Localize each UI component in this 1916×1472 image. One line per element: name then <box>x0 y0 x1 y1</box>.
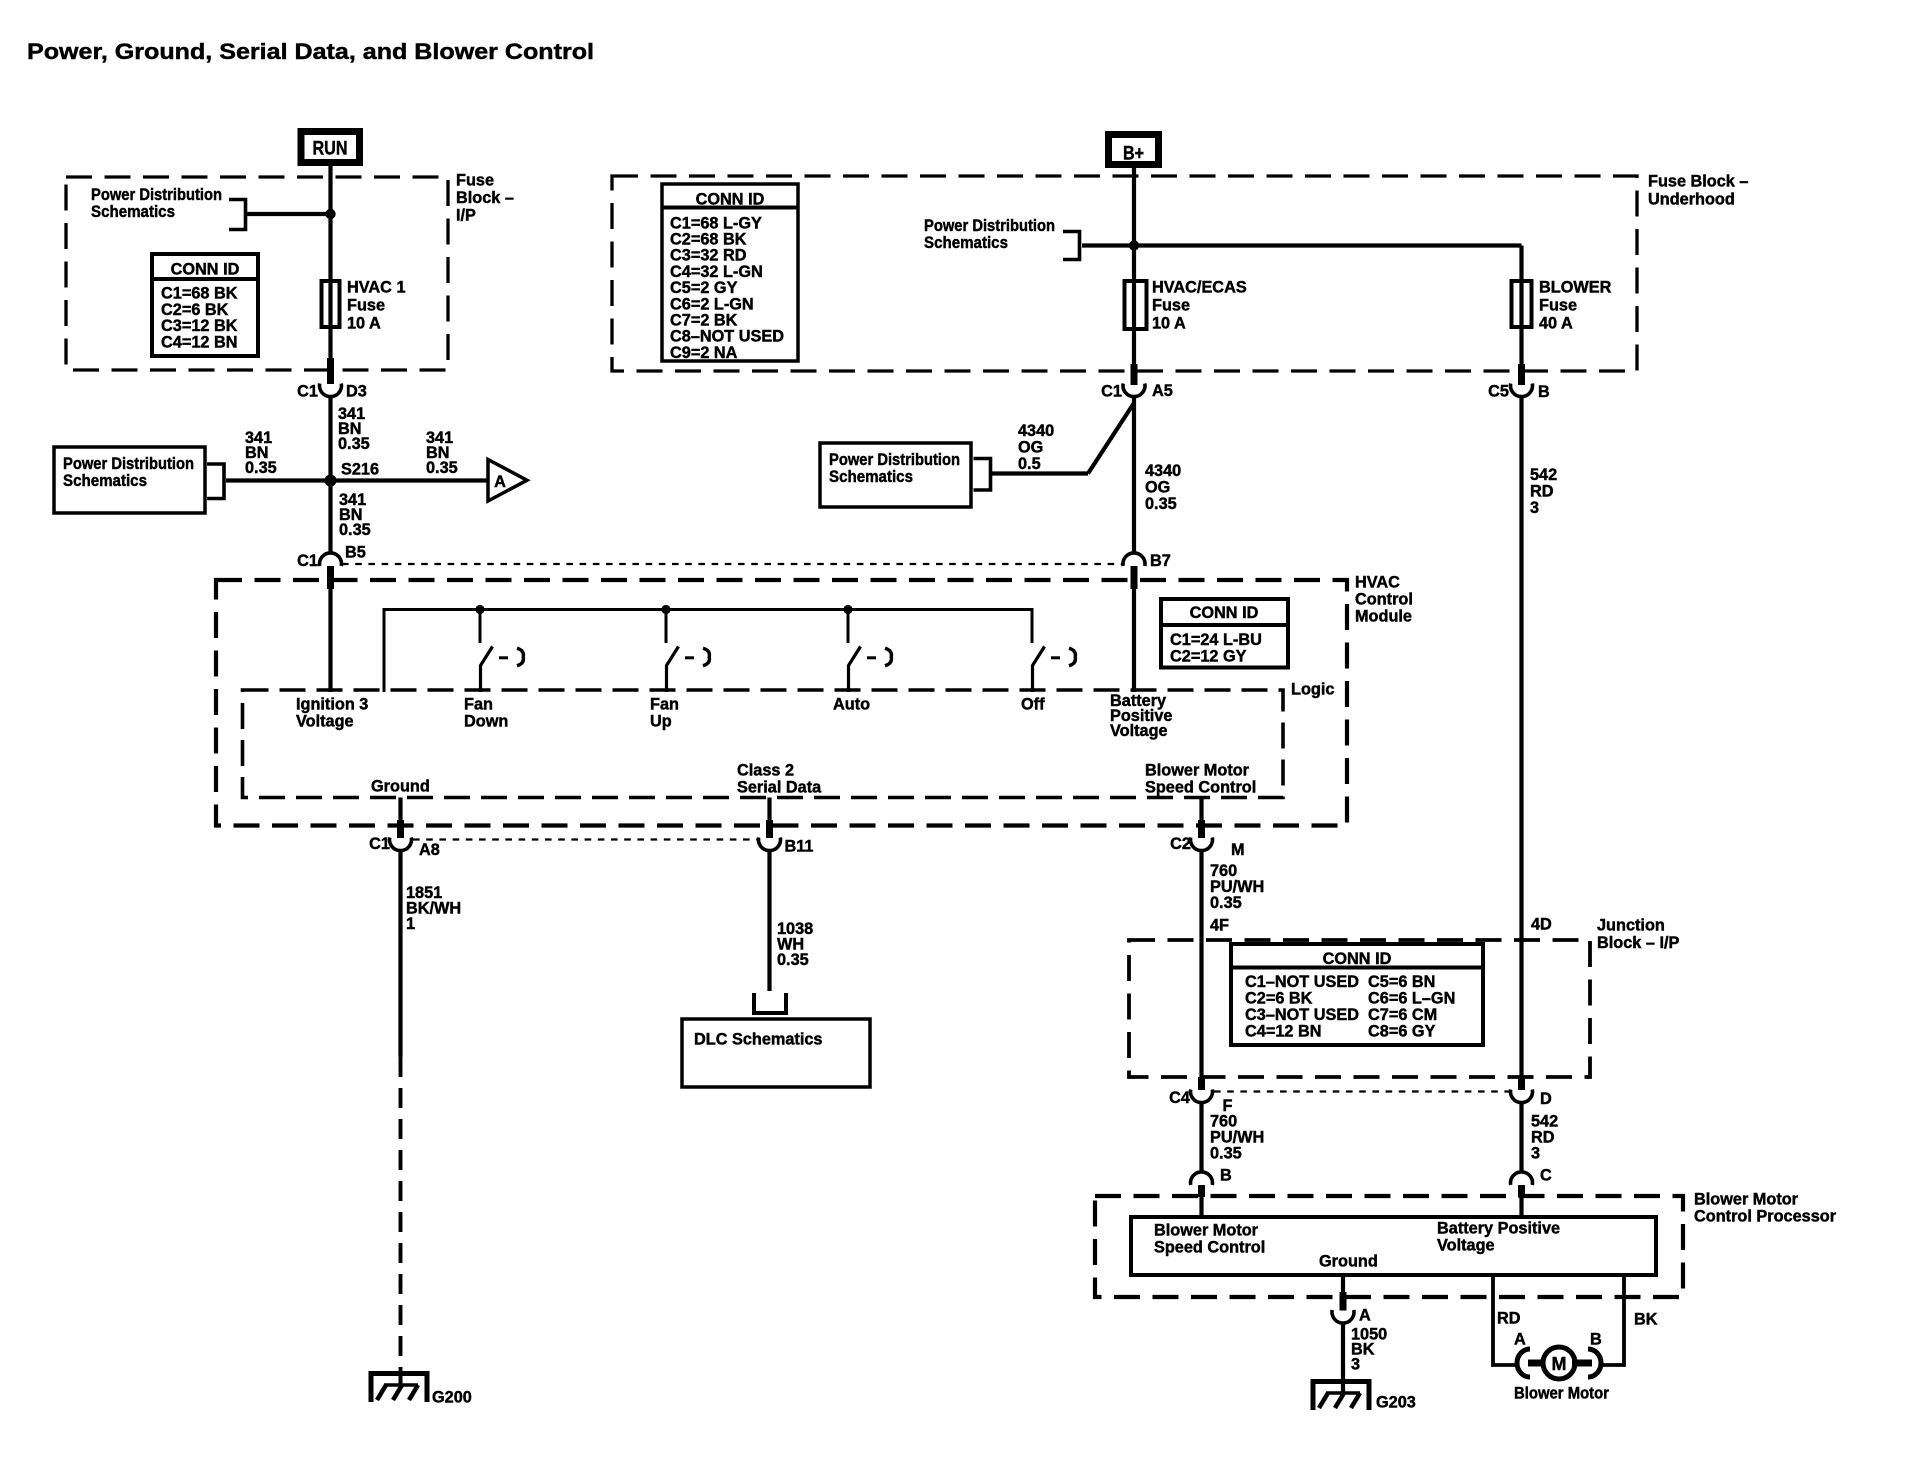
connector B11 stub <box>766 820 773 838</box>
fuse HVAC/ECAS 10A <box>1125 281 1147 329</box>
switch linkage dash x=848 <box>867 656 876 659</box>
svg-text:Up: Up <box>650 713 672 731</box>
svg-text:Fuse: Fuse <box>456 172 494 190</box>
svg-text:OG: OG <box>1018 439 1043 457</box>
svg-text:S216: S216 <box>341 461 379 479</box>
connector alignment dotted line A8-B11 <box>413 838 757 840</box>
svg-text:RD: RD <box>1530 483 1554 501</box>
svg-text:0.35: 0.35 <box>777 951 809 969</box>
connector C1/B5 <box>320 553 342 566</box>
svg-text:C1–NOT USED: C1–NOT USED <box>1245 973 1359 991</box>
svg-text:Schematics: Schematics <box>91 203 175 221</box>
connector C1/A5 <box>1123 384 1145 397</box>
connector C1/D3 <box>320 384 342 397</box>
svg-text:0.35: 0.35 <box>1145 495 1177 513</box>
svg-text:Power Distribution: Power Distribution <box>829 451 960 469</box>
svg-text:Voltage: Voltage <box>1437 1237 1495 1255</box>
connector C stub <box>1518 1185 1525 1197</box>
svg-text:Class 2: Class 2 <box>737 762 794 780</box>
splice S216 <box>325 475 337 487</box>
fuse BLOWER 40A <box>1512 281 1532 327</box>
wire BK to blower motor <box>1602 1275 1624 1365</box>
svg-text:A8: A8 <box>419 841 440 859</box>
svg-text:4D: 4D <box>1531 916 1552 934</box>
connector D <box>1510 1090 1532 1103</box>
svg-text:C2=6 BK: C2=6 BK <box>161 301 229 319</box>
svg-text:3: 3 <box>1530 499 1539 517</box>
svg-text:C6=6 L–GN: C6=6 L–GN <box>1368 990 1455 1008</box>
wire RD to blower motor <box>1493 1275 1517 1365</box>
wire 1038 WH 0.35 <box>767 850 771 991</box>
connector alignment dotted line F-D <box>1214 1090 1509 1092</box>
svg-text:A: A <box>494 473 506 491</box>
HVAC control module dashed box <box>216 580 1347 826</box>
svg-text:C5: C5 <box>1488 383 1509 401</box>
svg-text:G203: G203 <box>1376 1394 1416 1412</box>
svg-text:HVAC 1: HVAC 1 <box>347 279 406 297</box>
svg-text:0.35: 0.35 <box>1210 1145 1242 1163</box>
bus junction auto <box>843 605 852 614</box>
conn id table HVAC control module <box>1161 599 1288 668</box>
conn id table fuse block underhood <box>662 184 798 361</box>
blower motor control processor dashed box <box>1095 1196 1683 1297</box>
switch Off detent hook <box>1069 648 1075 665</box>
svg-text:Power Distribution: Power Distribution <box>91 186 222 204</box>
svg-text:3: 3 <box>1531 1145 1540 1163</box>
power distribution schematics box (middle) <box>820 443 971 507</box>
wire C into processor <box>1519 1197 1523 1217</box>
blower motor M <box>1543 1347 1575 1379</box>
svg-text:Speed Control: Speed Control <box>1145 779 1256 797</box>
wire blower speed control to C2/M <box>1199 798 1203 823</box>
switch bus wire <box>384 610 1032 693</box>
svg-text:C1: C1 <box>369 835 390 853</box>
svg-text:C1: C1 <box>297 383 318 401</box>
wire B5 to logic ignition 3 voltage <box>328 589 332 692</box>
wire blower fuse feed <box>1519 246 1523 376</box>
wire bracket to RUN feed <box>246 212 331 216</box>
svg-text:4340: 4340 <box>1018 422 1054 440</box>
svg-text:RUN: RUN <box>313 139 348 160</box>
connector C5/B <box>1510 384 1532 397</box>
connector A stub <box>1340 1292 1347 1311</box>
svg-text:Ground: Ground <box>1319 1253 1378 1271</box>
svg-text:4F: 4F <box>1210 917 1229 935</box>
svg-text:C1=24 L-BU: C1=24 L-BU <box>1170 631 1262 649</box>
svg-text:Control Processor: Control Processor <box>1694 1208 1837 1226</box>
svg-text:Blower Motor: Blower Motor <box>1694 1191 1799 1209</box>
svg-text:C4: C4 <box>1169 1089 1190 1107</box>
switch contact stub x=666 <box>665 610 668 644</box>
svg-text:HVAC: HVAC <box>1355 574 1400 592</box>
svg-text:0.35: 0.35 <box>245 459 277 477</box>
junction on RUN feed <box>325 209 335 219</box>
wire power distribution to B+ feed <box>1082 243 1522 247</box>
wire power distribution to S216 <box>226 478 331 482</box>
svg-text:Blower Motor: Blower Motor <box>1145 762 1250 780</box>
svg-text:Power, Ground, Serial Data, an: Power, Ground, Serial Data, and Blower C… <box>27 39 594 64</box>
svg-text:C4=12 BN: C4=12 BN <box>1245 1023 1321 1041</box>
svg-text:CONN ID: CONN ID <box>171 261 240 279</box>
svg-text:C4=12 BN: C4=12 BN <box>161 333 237 351</box>
svg-text:OG: OG <box>1145 479 1170 497</box>
wire B7 to logic battery positive voltage <box>1132 589 1136 692</box>
svg-text:Schematics: Schematics <box>829 468 913 486</box>
connector alignment dotted line B5-B7 <box>342 563 1122 565</box>
fuse HVAC 1 10A <box>322 281 340 327</box>
svg-text:Serial Data: Serial Data <box>737 779 822 797</box>
connector C5/B stub <box>1518 364 1525 385</box>
connector B7 stub <box>1131 566 1138 589</box>
switch blade x=480 <box>481 647 493 693</box>
svg-text:Fan: Fan <box>650 696 679 714</box>
svg-text:D3: D3 <box>346 383 367 401</box>
svg-text:B11: B11 <box>785 838 814 856</box>
connector D stub <box>1518 1077 1525 1090</box>
battery feed B+ box <box>1109 135 1159 165</box>
svg-text:C: C <box>1540 1167 1552 1185</box>
svg-text:Down: Down <box>464 713 508 731</box>
connector C1/A8 stub <box>397 820 404 838</box>
connector C1/A5 stub <box>1131 364 1138 385</box>
svg-text:M: M <box>1552 1354 1567 1374</box>
svg-text:40 A: 40 A <box>1539 315 1573 333</box>
svg-text:542: 542 <box>1530 466 1557 484</box>
svg-text:B5: B5 <box>345 544 366 562</box>
wire 542 RD to blower processor <box>1519 1102 1523 1171</box>
svg-text:Fuse: Fuse <box>1539 297 1577 315</box>
svg-text:C1: C1 <box>1101 383 1122 401</box>
switch contact stub x=480 <box>479 610 482 644</box>
svg-text:B: B <box>1590 1331 1602 1349</box>
connector B stub <box>1198 1185 1205 1197</box>
wire B+ to HVAC/ECAS fuse <box>1132 168 1136 385</box>
wire S216 to A <box>331 478 489 482</box>
switch Off linkage dash <box>1051 656 1060 659</box>
svg-text:0.35: 0.35 <box>1210 894 1242 912</box>
fuse block underhood dashed box <box>612 176 1637 371</box>
off-page arrow A <box>488 460 527 502</box>
switch detent hook x=848 <box>885 648 891 665</box>
svg-text:Fuse Block –: Fuse Block – <box>1648 173 1748 191</box>
connector C (processor) <box>1510 1172 1532 1185</box>
connector A <box>1332 1310 1354 1323</box>
svg-text:C1: C1 <box>297 552 318 570</box>
svg-text:4340: 4340 <box>1145 462 1181 480</box>
svg-text:Fan: Fan <box>464 696 493 714</box>
svg-text:0.35: 0.35 <box>339 521 371 539</box>
junction block I/P dashed box <box>1129 940 1590 1077</box>
wire 1851 BK/WH 1 dashed part <box>399 1057 403 1372</box>
svg-text:B7: B7 <box>1150 552 1171 570</box>
switch blade x=848 <box>849 647 861 693</box>
svg-text:Off: Off <box>1021 696 1045 714</box>
wire class 2 serial data to B11 <box>767 798 771 823</box>
connector B11 <box>759 838 781 851</box>
switch blade x=666 <box>667 647 679 693</box>
svg-text:C2: C2 <box>1170 835 1191 853</box>
logic block dashed box <box>243 690 1284 798</box>
bracket to power distribution (top left) <box>229 200 246 230</box>
switch contact stub x=848 <box>847 610 850 644</box>
wire processor ground to A <box>1341 1275 1345 1295</box>
svg-text:BLOWER: BLOWER <box>1539 279 1612 297</box>
connector C1/D3 stub <box>327 358 334 384</box>
svg-text:Voltage: Voltage <box>296 713 354 731</box>
conn id table fuse block I/P <box>152 254 258 356</box>
fuse block I/P dashed box <box>66 177 448 370</box>
connector C2/M stub <box>1198 820 1205 838</box>
wire 4340 OG A5 to B7 <box>1132 396 1136 553</box>
svg-text:DLC Schematics: DLC Schematics <box>694 1031 823 1049</box>
svg-text:HVAC/ECAS: HVAC/ECAS <box>1152 279 1247 297</box>
svg-text:Power Distribution: Power Distribution <box>924 217 1055 235</box>
conn id table junction block <box>1231 944 1483 1045</box>
svg-text:Fuse: Fuse <box>1152 297 1190 315</box>
connector C4/F <box>1191 1090 1213 1103</box>
svg-text:G200: G200 <box>432 1389 472 1407</box>
svg-text:Auto: Auto <box>833 696 870 714</box>
connector B (processor) <box>1191 1172 1213 1185</box>
svg-text:3: 3 <box>1351 1356 1360 1374</box>
svg-text:A: A <box>1359 1307 1371 1325</box>
svg-text:M: M <box>1231 841 1245 859</box>
svg-text:1: 1 <box>406 915 415 933</box>
svg-text:B: B <box>1538 383 1550 401</box>
svg-text:0.5: 0.5 <box>1018 455 1041 473</box>
wire ground pin to A8 <box>398 798 402 823</box>
svg-text:RD: RD <box>1497 1310 1521 1328</box>
svg-text:CONN ID: CONN ID <box>1323 950 1392 968</box>
svg-text:Junction: Junction <box>1597 917 1665 935</box>
bracket to power distribution (top middle) <box>1063 232 1080 260</box>
svg-text:Underhood: Underhood <box>1648 191 1735 209</box>
svg-text:Speed Control: Speed Control <box>1154 1239 1265 1257</box>
wire 760 PU/WH to blower processor <box>1199 1102 1203 1171</box>
svg-text:C8=6 GY: C8=6 GY <box>1368 1023 1436 1041</box>
DLC connector cup <box>754 993 786 1013</box>
svg-text:Schematics: Schematics <box>924 234 1008 252</box>
svg-text:C3=12 BK: C3=12 BK <box>161 317 238 335</box>
svg-text:Control: Control <box>1355 591 1413 609</box>
wire 341 BN to S216 <box>328 396 332 553</box>
svg-text:C9=2 NA: C9=2 NA <box>670 344 738 362</box>
wire 542 RD 3 to junction block <box>1519 396 1523 1078</box>
svg-text:Module: Module <box>1355 608 1412 626</box>
svg-text:Battery Positive: Battery Positive <box>1437 1220 1560 1238</box>
svg-text:C2=12 GY: C2=12 GY <box>1170 648 1247 666</box>
svg-text:A: A <box>1514 1331 1526 1349</box>
ground G203 <box>1313 1382 1369 1411</box>
svg-text:Power Distribution: Power Distribution <box>63 455 194 473</box>
blower motor connector A <box>1517 1349 1530 1377</box>
svg-text:D: D <box>1540 1090 1552 1108</box>
DLC schematics box <box>682 1019 870 1087</box>
bus junction fan down <box>475 605 484 614</box>
wire 760 PU/WH 0.35 to junction block <box>1199 850 1203 1077</box>
svg-text:C5=6 BN: C5=6 BN <box>1368 973 1435 991</box>
diagonal wire 4340 OG to A5 <box>1088 403 1134 474</box>
svg-text:0.35: 0.35 <box>338 435 370 453</box>
wire 1050 BK 3 <box>1341 1323 1345 1393</box>
svg-text:A5: A5 <box>1152 382 1173 400</box>
bus junction fan up <box>661 605 670 614</box>
switch detent hook x=480 <box>517 648 523 665</box>
switch Off blade <box>1033 647 1045 693</box>
connector C1/A8 <box>389 838 411 851</box>
svg-text:0.35: 0.35 <box>426 459 458 477</box>
svg-text:C1=68 BK: C1=68 BK <box>161 285 238 303</box>
svg-text:Block – I/P: Block – I/P <box>1597 934 1679 952</box>
ground G200 <box>399 1372 403 1385</box>
svg-text:B: B <box>1220 1167 1232 1185</box>
svg-text:Logic: Logic <box>1291 681 1334 699</box>
svg-text:Blower Motor: Blower Motor <box>1154 1222 1259 1240</box>
svg-text:Ignition 3: Ignition 3 <box>296 696 368 714</box>
power distribution schematics box (left) <box>54 447 205 513</box>
wire B into processor <box>1199 1197 1203 1217</box>
svg-text:CONN ID: CONN ID <box>1190 604 1259 622</box>
svg-text:C3–NOT USED: C3–NOT USED <box>1245 1006 1359 1024</box>
svg-text:Blower Motor: Blower Motor <box>1514 1385 1610 1403</box>
svg-text:I/P: I/P <box>456 207 476 225</box>
svg-text:Ground: Ground <box>371 778 430 796</box>
wire power distribution tap 4340 OG <box>992 471 1088 475</box>
wire 1851 BK/WH 1 solid part <box>398 850 402 1057</box>
svg-text:Fuse: Fuse <box>347 297 385 315</box>
connector C4/F stub <box>1198 1077 1205 1090</box>
svg-text:10 A: 10 A <box>347 315 381 333</box>
bracket to power distribution (middle) <box>974 459 991 491</box>
blower processor inner box <box>1131 1217 1656 1275</box>
switch detent hook x=666 <box>703 648 709 665</box>
svg-text:C7=6 CM: C7=6 CM <box>1368 1006 1437 1024</box>
blower motor terminal stubs <box>1528 1360 1544 1367</box>
svg-text:10 A: 10 A <box>1152 315 1186 333</box>
svg-text:C2=6 BK: C2=6 BK <box>1245 990 1313 1008</box>
svg-text:B+: B+ <box>1123 144 1144 165</box>
connector B7 <box>1123 553 1145 566</box>
svg-text:Block –: Block – <box>456 189 514 207</box>
bracket to power distribution (left) <box>207 464 224 499</box>
connector C2/M <box>1191 838 1213 851</box>
svg-text:Schematics: Schematics <box>63 472 147 490</box>
connector C1/B5 stub <box>327 566 334 589</box>
switch linkage dash x=480 <box>499 656 508 659</box>
switch linkage dash x=666 <box>685 656 694 659</box>
junction on B+ feed <box>1129 240 1139 250</box>
keyswitch RUN box <box>301 132 360 163</box>
wire RUN ignition feed <box>328 166 332 380</box>
svg-text:Voltage: Voltage <box>1110 722 1168 740</box>
blower motor connector B <box>1588 1349 1601 1377</box>
svg-text:CONN ID: CONN ID <box>696 191 765 209</box>
svg-text:BK: BK <box>1634 1311 1658 1329</box>
